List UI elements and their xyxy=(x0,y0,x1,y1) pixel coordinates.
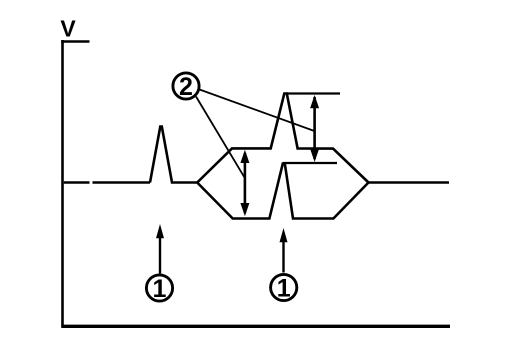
envelope upper path: rise, upper level, big spike, upper level, fall xyxy=(197,94,368,183)
callout circle 2 xyxy=(173,73,199,101)
dimension arrow 2 (spike peak difference, double-headed) xyxy=(310,95,319,162)
top peak reference line xyxy=(286,92,340,94)
small spike (tooth signal) xyxy=(150,127,197,183)
wire: baseline left stub xyxy=(64,181,90,184)
wire: baseline to first spike xyxy=(93,181,151,184)
svg-text:1: 1 xyxy=(277,275,291,303)
vertical axis (voltage) xyxy=(61,40,64,327)
callout circle 1 (right) xyxy=(271,274,297,302)
leader line from callout 2 to arrow 1 xyxy=(196,97,245,178)
pointer arrow for callout 1 (left) xyxy=(156,224,164,274)
envelope lower path: fall, lower level, lower spike, lower level, rise xyxy=(197,164,368,219)
callout circle 1 (left) xyxy=(146,275,172,303)
horizontal axis (time) xyxy=(61,325,450,328)
wire: baseline right xyxy=(369,181,450,184)
axis top tick xyxy=(61,40,89,42)
leader line from callout 2 to arrow 2 xyxy=(200,90,315,132)
svg-text:1: 1 xyxy=(153,275,167,303)
pointer arrow for callout 1 (right) xyxy=(280,228,288,273)
svg-text:V: V xyxy=(60,16,76,42)
lower peak reference line xyxy=(283,162,337,164)
dimension arrow 1 (eye amplitude, double-headed) xyxy=(240,150,249,216)
svg-text:2: 2 xyxy=(179,73,193,101)
